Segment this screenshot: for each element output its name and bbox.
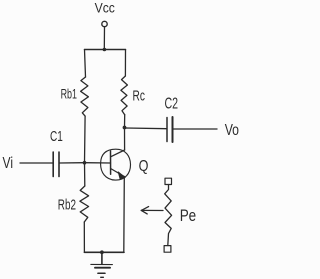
wire collector rail — [124, 115, 126, 150]
wire Vcc to top rail — [103, 27, 105, 50]
wire Vi to C1 — [20, 162, 53, 164]
capacitor C2 — [166, 118, 168, 142]
potentiometer Re wiper arrow — [141, 209, 163, 211]
transistor Q collector lead — [111, 150, 125, 157]
svg-text:C1: C1 — [50, 129, 63, 145]
wire left rail bottom — [83, 222, 85, 252]
wire collector node to C2 — [125, 127, 167, 130]
wire C2 to Vo — [174, 128, 218, 130]
transistor Q emitter arrowhead — [118, 172, 125, 179]
svg-text:Pe: Pe — [180, 207, 197, 225]
wire left rail upper — [85, 50, 86, 78]
wire emitter rail — [123, 177, 126, 253]
resistor Rc — [121, 76, 128, 115]
svg-text:Rb2: Rb2 — [58, 198, 76, 214]
wire top rail — [85, 49, 126, 51]
node base junction — [83, 161, 87, 165]
Vcc terminal circle — [102, 21, 107, 26]
resistor Rb1 — [81, 77, 89, 116]
svg-text:Rc: Rc — [133, 87, 146, 104]
wire base node to transistor — [85, 162, 111, 164]
potentiometer Re zigzag — [165, 185, 172, 246]
svg-text:Vo: Vo — [225, 122, 239, 139]
potentiometer Re top terminal square — [165, 178, 172, 184]
svg-text:Q: Q — [139, 158, 149, 175]
wire left rail mid — [84, 116, 87, 163]
capacitor C1 — [52, 152, 54, 177]
node ground junction — [100, 250, 104, 254]
wire bottom rail — [84, 251, 124, 253]
transistor Q base bar — [110, 151, 112, 174]
node top junction — [103, 48, 107, 52]
ground — [101, 252, 103, 264]
svg-text:Rb1: Rb1 — [61, 87, 77, 103]
resistor Rb2 — [80, 186, 89, 222]
transistor Q circle — [101, 149, 131, 180]
wire C1 to base node — [60, 162, 85, 164]
node collector junction — [123, 126, 127, 130]
wire right rail upper — [124, 50, 126, 77]
svg-text:Vcc: Vcc — [95, 0, 115, 15]
potentiometer Re bottom terminal square — [164, 246, 171, 253]
svg-text:C2: C2 — [165, 95, 179, 112]
transistor Q emitter lead — [111, 169, 125, 177]
svg-text:Vi: Vi — [3, 155, 14, 172]
wire left rail lower — [84, 163, 86, 186]
